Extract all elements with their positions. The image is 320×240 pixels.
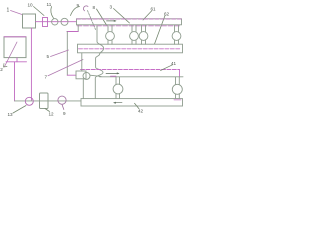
pump 9 (bottom) <box>58 96 66 104</box>
label 2 <box>0 42 17 72</box>
label 12 <box>45 109 54 117</box>
three-way valve 8 <box>76 71 101 99</box>
fan coil bottom row circle 1 <box>113 77 123 99</box>
pump 11 (circle) <box>52 19 58 25</box>
pipe from middle bar down to valve <box>81 53 83 71</box>
label 8 <box>93 5 107 25</box>
magenta pipe line under bottom edge <box>77 25 181 27</box>
box 1 (unit 1) <box>23 14 36 28</box>
pipe under box 2 <box>6 58 27 101</box>
curled leader arrow <box>83 6 95 30</box>
svg-text:2: 2 <box>0 67 3 72</box>
label 10 <box>28 3 45 16</box>
flow arrow in bar 42 (pointing left) <box>113 102 122 104</box>
fan coil top row circle 2 <box>130 25 139 44</box>
pipe from top manifold down (with hops) <box>95 26 103 98</box>
wire: pipe from box1 to manifold <box>36 21 77 23</box>
return manifold (middle bar) <box>78 44 183 53</box>
pipe from box1 bottom down to pump line <box>30 28 32 100</box>
bottom pump pipe <box>15 100 82 102</box>
svg-text:7: 7 <box>45 75 48 80</box>
svg-text:8: 8 <box>93 5 96 10</box>
pipe from top manifold down-left elbow <box>67 25 78 75</box>
svg-text:5: 5 <box>47 54 50 59</box>
fan coil top row circle 3 <box>139 25 148 44</box>
label 9 (bottom) <box>62 104 66 116</box>
svg-text:42: 42 <box>138 109 144 114</box>
flow arrow lower deck <box>106 72 120 74</box>
label 7 <box>45 60 84 80</box>
svg-text:9: 9 <box>63 111 66 116</box>
label 9 (top) <box>71 3 80 16</box>
pump 13 <box>25 97 33 105</box>
pipe 41 (magenta supply line) <box>81 70 180 77</box>
label 13 <box>8 106 27 118</box>
fan coil bottom row circle 2 <box>172 77 182 99</box>
magenta dash on lower deck pipe <box>111 75 117 77</box>
label 3 <box>110 5 130 24</box>
fan coil 61a (top row circle 1) <box>106 25 115 44</box>
label 61 <box>143 7 156 21</box>
box 2 (unit 2) <box>4 37 26 58</box>
label 41 <box>161 61 177 71</box>
magenta pipe line on top edge <box>77 18 182 20</box>
pump circle <box>61 18 68 25</box>
flow arrow in top bar <box>107 20 117 22</box>
supply manifold (top bar) <box>77 19 182 26</box>
svg-text:11: 11 <box>47 2 52 7</box>
magenta pipe inside middle bar <box>79 48 181 50</box>
filter 12 <box>40 93 49 109</box>
svg-text:12: 12 <box>49 112 55 117</box>
label 5 (middle) <box>47 50 69 59</box>
svg-text:3: 3 <box>110 5 113 10</box>
svg-text:1: 1 <box>7 8 10 14</box>
svg-text:10: 10 <box>28 3 34 8</box>
fan coil top row circle 4 <box>172 25 181 44</box>
return bar 42 <box>81 99 183 106</box>
label 11 <box>47 2 54 18</box>
svg-text:13: 13 <box>8 112 14 117</box>
label 62 <box>155 12 170 45</box>
valve 10 <box>43 18 48 27</box>
lower deck pipe (gray) <box>100 76 184 78</box>
label 1 <box>7 8 23 15</box>
label 42 <box>135 103 144 113</box>
